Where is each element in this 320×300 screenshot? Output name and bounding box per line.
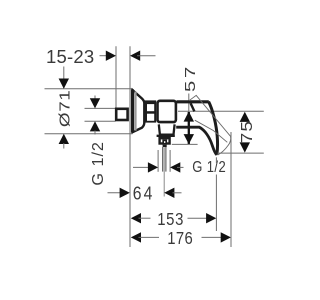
lever inner detail line	[195, 120, 228, 142]
supply G1/2 extension line top	[85, 107, 116, 109]
outlet centerline	[163, 148, 165, 197]
dimension Ø71 leader and arrows	[63, 67, 65, 89]
dim 153 line and arrows	[131, 213, 141, 223]
lower housing	[159, 124, 175, 134]
housing shoulder	[157, 135, 175, 137]
svg-text:64: 64	[133, 182, 155, 204]
outlet pipe lines	[162, 147, 164, 172]
dim 57 shaft and arrows	[188, 112, 190, 144]
outlet G1/2 dimension line and arrows	[133, 166, 151, 168]
svg-text:75: 75	[237, 120, 255, 143]
svg-text:15-23: 15-23	[46, 46, 94, 67]
dim 57 bottom extension line	[172, 143, 198, 145]
dim 75 arrows	[240, 112, 250, 122]
body joint dome	[160, 129, 173, 131]
dim 64 line left and arrow	[108, 192, 125, 194]
escutcheon face shading	[134, 92, 136, 131]
svg-text:176: 176	[167, 229, 193, 248]
dim 176 extension line from lever bulge	[230, 132, 232, 247]
union nut lower window	[147, 114, 154, 121]
outlet inner square	[163, 140, 166, 144]
lever handle thick top bar	[177, 100, 209, 103]
outlet stub	[163, 145, 167, 147]
lever back bulge outline	[218, 136, 231, 155]
svg-text:G 1/2: G 1/2	[192, 159, 226, 176]
lever cap left edge	[191, 103, 195, 111]
svg-text:G 1/2: G 1/2	[90, 141, 107, 185]
svg-text:Ø71: Ø71	[57, 90, 73, 128]
supply G1/2 extension line bottom	[85, 120, 116, 122]
dim 153 extension line from lever tip	[215, 157, 217, 163]
dimension Ø71 extension line top	[45, 88, 133, 90]
svg-text:57: 57	[182, 64, 199, 92]
union nut	[144, 100, 156, 122]
dim 75 bottom extension line	[218, 152, 264, 154]
lever underside	[176, 127, 217, 155]
dim 57 leader above	[188, 94, 190, 112]
supply G1/2 leader and arrows	[94, 96, 96, 100]
dimension 15-23 lines and arrows	[100, 55, 110, 57]
lever peak outline	[189, 95, 231, 136]
dim 64 right arrow	[164, 188, 174, 198]
lever front edge	[209, 102, 218, 155]
wall line left (finished wall min)	[115, 46, 117, 107]
dim 176 line and arrows	[131, 232, 141, 242]
escutcheon	[133, 90, 144, 132]
dim 57 top extension line	[178, 110, 264, 112]
supply nipple G1/2	[116, 109, 127, 120]
dimension Ø71 extension line bottom	[45, 133, 133, 135]
mixer body	[158, 101, 176, 122]
outlet block	[160, 138, 170, 143]
body joint line	[159, 126, 174, 128]
outlet G1/2 extension lines	[157, 150, 159, 172]
union nut upper window	[147, 104, 154, 111]
wall line right (finished wall max)	[129, 46, 131, 247]
escutcheon wall face	[131, 89, 134, 132]
svg-text:153: 153	[157, 210, 184, 229]
